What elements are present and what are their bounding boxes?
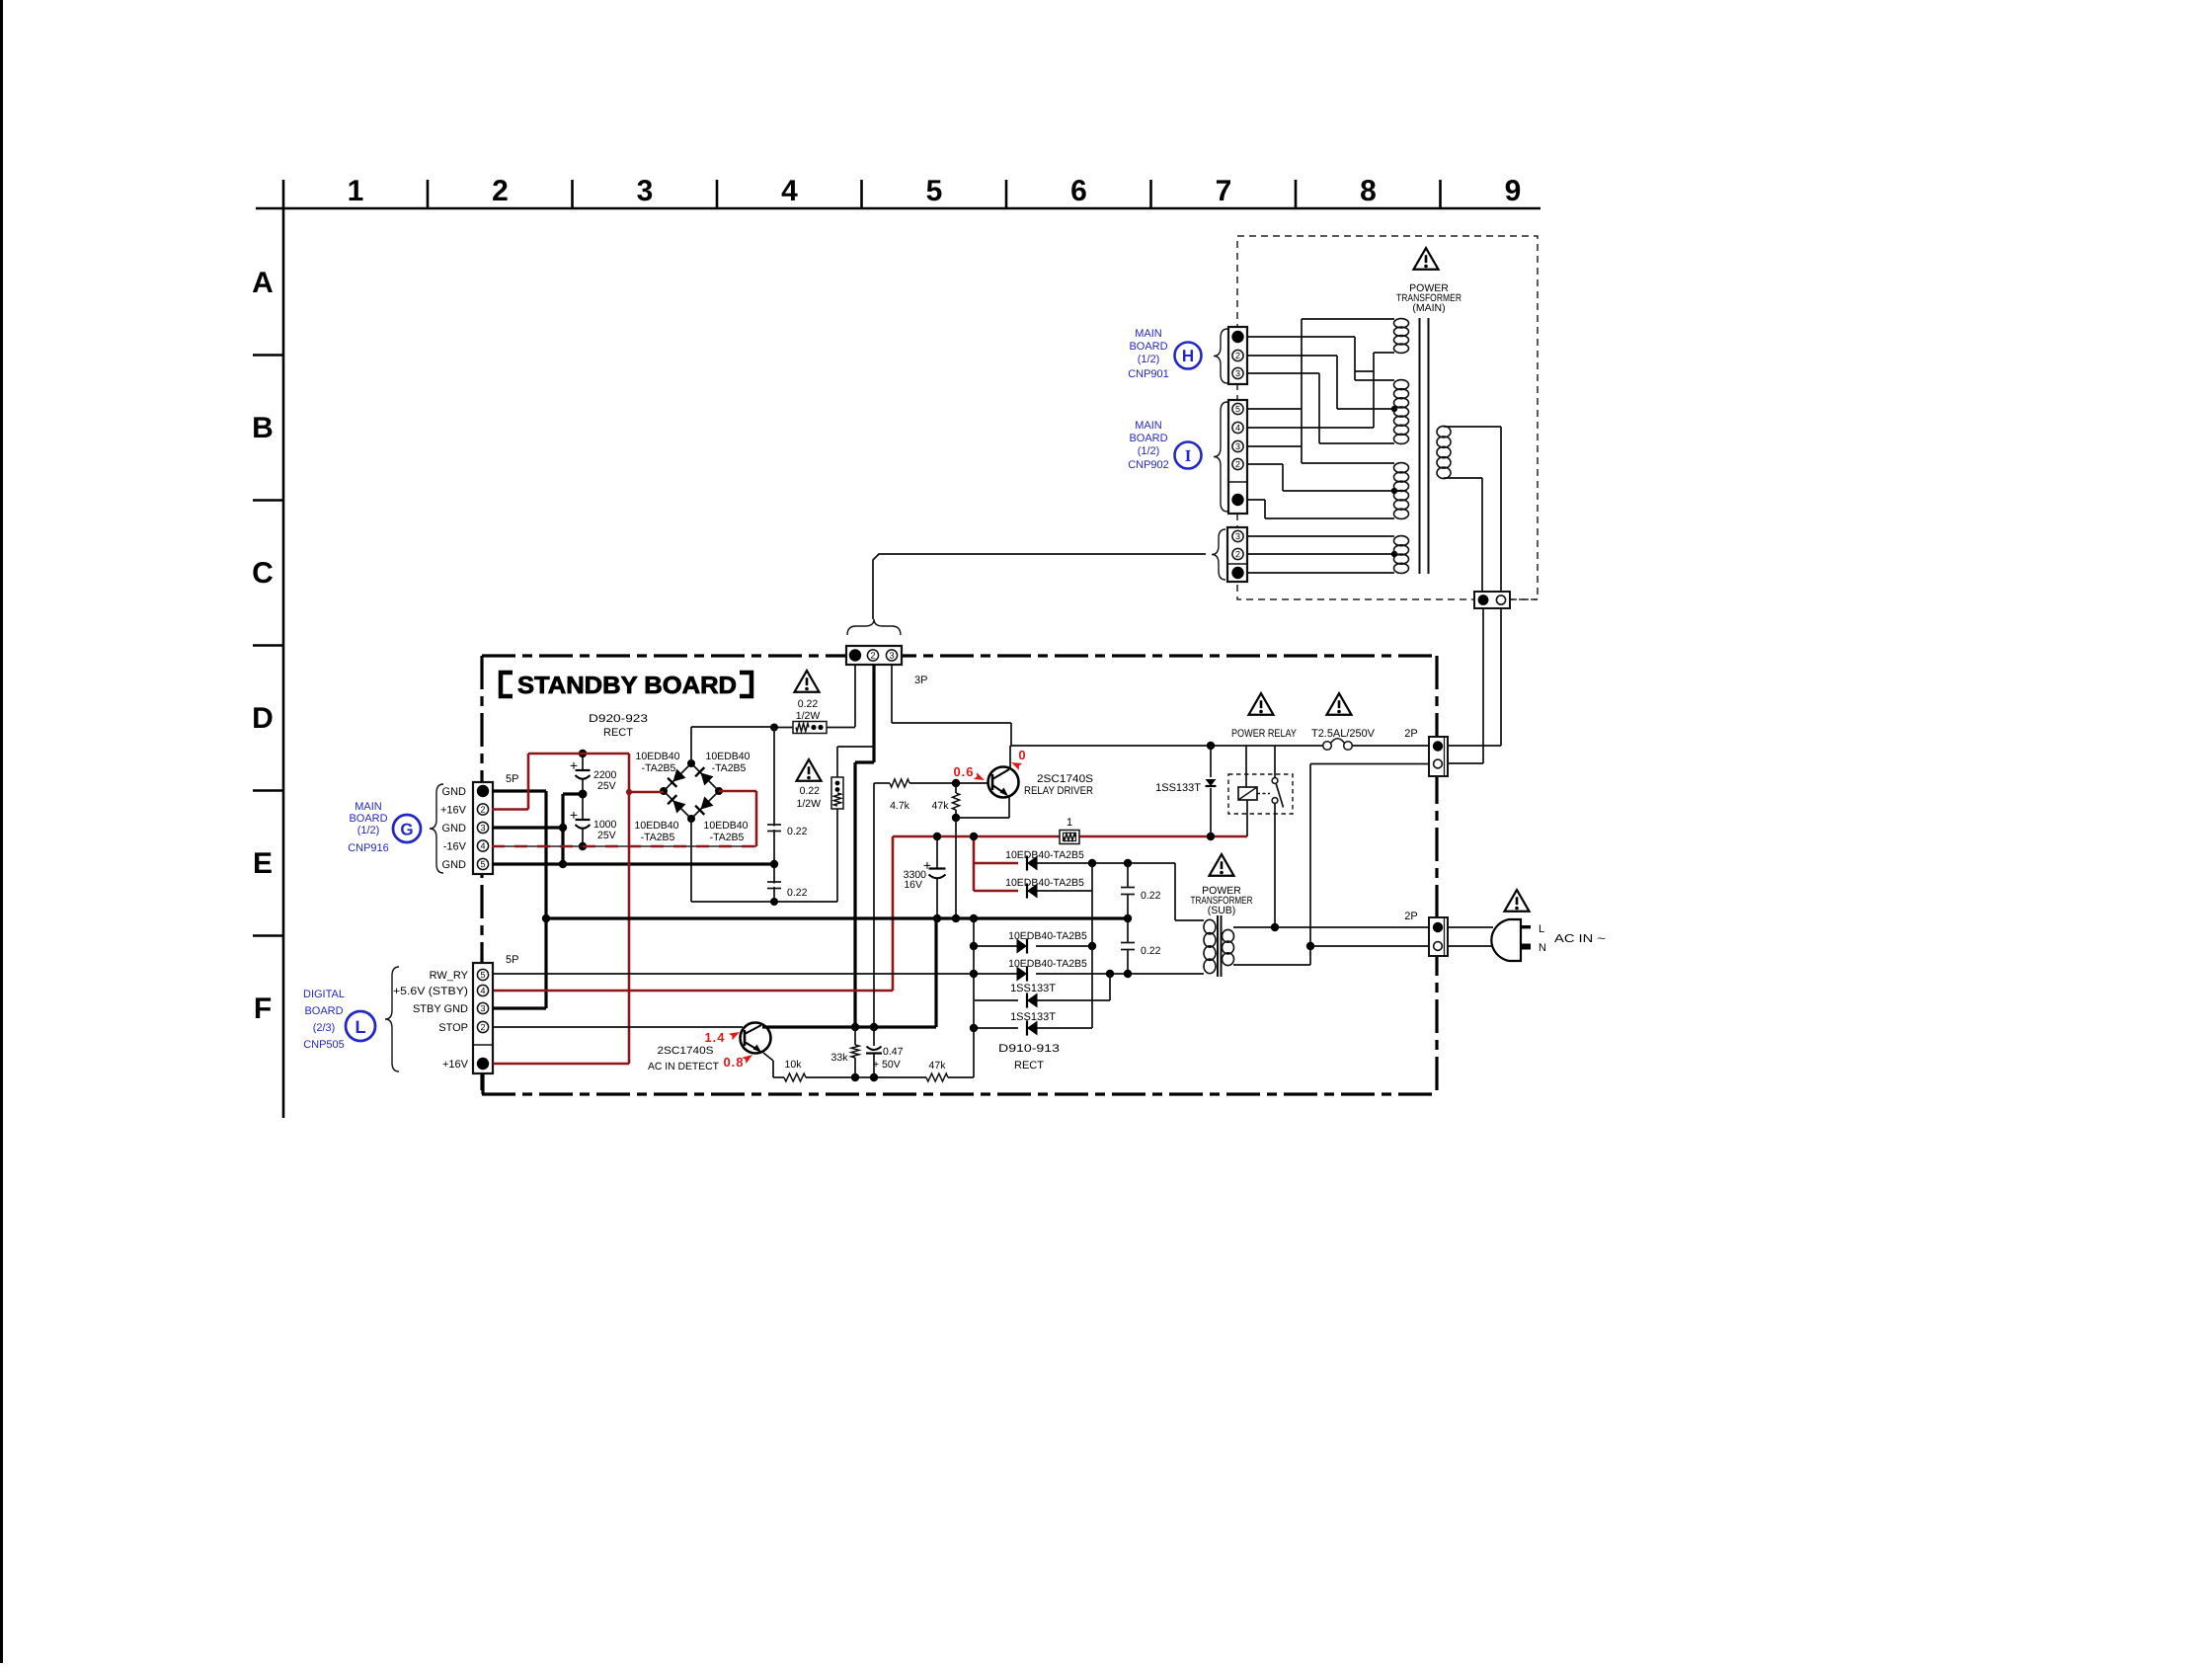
svg-text:T2.5AL/250V: T2.5AL/250V	[1311, 728, 1376, 740]
svg-text:4.7k: 4.7k	[890, 800, 910, 812]
svg-text:10EDB40: 10EDB40	[635, 820, 679, 832]
svg-text:1: 1	[1066, 817, 1072, 829]
svg-text:33k: 33k	[831, 1052, 849, 1064]
svg-text:MAIN: MAIN	[355, 801, 382, 813]
svg-text:E: E	[253, 847, 273, 880]
svg-text:4: 4	[781, 175, 798, 207]
svg-text:3P: 3P	[914, 675, 927, 686]
svg-text:2: 2	[480, 805, 485, 815]
svg-text:6: 6	[1070, 175, 1087, 207]
svg-text:0.8: 0.8	[723, 1055, 744, 1070]
svg-text:5: 5	[480, 970, 485, 980]
svg-text:7: 7	[1216, 175, 1232, 207]
svg-text:1SS133T: 1SS133T	[1155, 782, 1201, 794]
svg-text:10k: 10k	[785, 1059, 803, 1071]
svg-text:(2/3): (2/3)	[313, 1022, 336, 1034]
svg-text:POWER RELAY: POWER RELAY	[1231, 728, 1298, 740]
svg-text:9: 9	[1505, 175, 1522, 207]
svg-text:0.22: 0.22	[787, 887, 808, 899]
svg-text:5: 5	[480, 859, 485, 869]
svg-text:BOARD: BOARD	[1129, 433, 1167, 444]
svg-text:25V: 25V	[597, 830, 616, 841]
svg-text:5P: 5P	[506, 954, 518, 966]
svg-text:D: D	[252, 702, 274, 735]
svg-text:D910-913: D910-913	[998, 1043, 1060, 1055]
svg-text:F: F	[254, 993, 272, 1025]
svg-text:(SUB): (SUB)	[1208, 905, 1236, 916]
svg-text:GND: GND	[442, 823, 467, 834]
svg-text:CNP505: CNP505	[303, 1039, 345, 1051]
svg-text:B: B	[252, 412, 274, 444]
svg-text:3: 3	[480, 823, 485, 833]
svg-text:AC IN DETECT: AC IN DETECT	[648, 1061, 720, 1072]
svg-text:BOARD: BOARD	[304, 1005, 343, 1017]
svg-text:2P: 2P	[1404, 728, 1417, 740]
svg-text:STANDBY BOARD: STANDBY BOARD	[517, 673, 737, 699]
svg-text:1: 1	[348, 175, 364, 207]
svg-text:DIGITAL: DIGITAL	[303, 989, 345, 1000]
svg-text:3: 3	[637, 175, 654, 207]
svg-text:0.22: 0.22	[787, 826, 808, 837]
svg-text:0.47: 0.47	[883, 1046, 904, 1058]
svg-text:0.22: 0.22	[1141, 945, 1161, 957]
svg-text:CNP901: CNP901	[1128, 368, 1169, 380]
svg-text:0: 0	[1018, 748, 1025, 762]
svg-text:10EDB40: 10EDB40	[704, 820, 749, 832]
svg-text:RW_RY: RW_RY	[430, 970, 469, 982]
svg-text:4: 4	[480, 841, 485, 851]
svg-text:8: 8	[1360, 175, 1377, 207]
svg-text:3: 3	[1235, 441, 1240, 451]
svg-text:1SS133T: 1SS133T	[1010, 1011, 1056, 1023]
svg-text:+5.6V (STBY): +5.6V (STBY)	[393, 986, 468, 997]
svg-text:D920-923: D920-923	[589, 713, 648, 725]
svg-text:25V: 25V	[597, 780, 616, 792]
svg-text:L: L	[355, 1017, 365, 1037]
svg-text:10EDB40-TA2B5: 10EDB40-TA2B5	[1008, 930, 1087, 942]
svg-text:1SS133T: 1SS133T	[1010, 983, 1056, 994]
svg-text:A: A	[252, 267, 274, 299]
svg-text:4: 4	[480, 986, 485, 995]
svg-text:2: 2	[1235, 549, 1240, 559]
svg-text:4: 4	[1235, 423, 1240, 433]
svg-text:MAIN: MAIN	[1135, 420, 1162, 432]
svg-text:CNP902: CNP902	[1128, 459, 1169, 471]
svg-text:RECT: RECT	[603, 727, 633, 739]
svg-text:3: 3	[1235, 368, 1240, 378]
svg-text:2SC1740S: 2SC1740S	[1037, 773, 1093, 785]
svg-text:2: 2	[870, 651, 875, 661]
svg-text:1/2W: 1/2W	[796, 710, 821, 722]
svg-text:(1/2): (1/2)	[1138, 354, 1160, 365]
svg-text:GND: GND	[442, 859, 467, 871]
svg-text:MAIN: MAIN	[1135, 328, 1162, 340]
svg-text:+16V: +16V	[442, 1059, 469, 1071]
svg-text:2SC1740S: 2SC1740S	[657, 1045, 713, 1057]
svg-text:16V: 16V	[904, 879, 922, 891]
svg-text:2P: 2P	[1404, 911, 1417, 922]
svg-text:10EDB40-TA2B5: 10EDB40-TA2B5	[1005, 849, 1084, 861]
svg-text:10EDB40: 10EDB40	[636, 751, 680, 762]
svg-text:47k: 47k	[929, 1060, 947, 1072]
svg-text:1.4: 1.4	[704, 1030, 725, 1045]
svg-text:2: 2	[1235, 351, 1240, 360]
svg-text:STOP: STOP	[438, 1022, 468, 1034]
svg-text:CNP916: CNP916	[348, 842, 389, 854]
svg-text:AC IN ~: AC IN ~	[1554, 933, 1606, 945]
svg-text:G: G	[400, 820, 413, 838]
svg-text:2: 2	[480, 1022, 485, 1032]
svg-text:10EDB40: 10EDB40	[706, 751, 750, 762]
svg-text:C: C	[252, 557, 274, 590]
svg-text:-TA2B5: -TA2B5	[710, 832, 745, 843]
svg-text:BOARD: BOARD	[1129, 341, 1167, 353]
svg-text:+: +	[570, 757, 578, 773]
svg-text:STBY GND: STBY GND	[413, 1003, 468, 1015]
svg-text:N: N	[1539, 942, 1546, 954]
svg-text:0.6: 0.6	[953, 764, 974, 779]
svg-text:5: 5	[926, 175, 943, 207]
svg-text:L: L	[1539, 923, 1544, 935]
svg-text:-TA2B5: -TA2B5	[642, 762, 676, 774]
svg-text:1/2W: 1/2W	[796, 798, 821, 810]
svg-text:I: I	[1185, 446, 1192, 465]
svg-text:GND: GND	[442, 786, 467, 798]
svg-text:0.22: 0.22	[800, 785, 821, 797]
svg-text:47k: 47k	[932, 800, 950, 812]
svg-text:+ 50V: + 50V	[873, 1059, 901, 1071]
svg-text:0.22: 0.22	[1141, 890, 1161, 902]
svg-text:-16V: -16V	[443, 840, 467, 852]
svg-text:-TA2B5: -TA2B5	[641, 832, 675, 843]
svg-text:-TA2B5: -TA2B5	[712, 762, 747, 774]
svg-text:3: 3	[480, 1003, 485, 1013]
svg-text:+16V: +16V	[440, 804, 467, 816]
svg-text:3: 3	[889, 651, 894, 661]
svg-text:3: 3	[1235, 531, 1240, 541]
svg-text:2: 2	[492, 175, 509, 207]
svg-text:RELAY DRIVER: RELAY DRIVER	[1024, 785, 1093, 797]
svg-text:(1/2): (1/2)	[357, 825, 380, 836]
svg-text:10EDB40-TA2B5: 10EDB40-TA2B5	[1005, 877, 1084, 889]
svg-text:RECT: RECT	[1014, 1060, 1044, 1072]
svg-text:5: 5	[1235, 404, 1240, 414]
svg-text:5P: 5P	[506, 773, 518, 785]
svg-text:BOARD: BOARD	[349, 813, 387, 825]
svg-text:(1/2): (1/2)	[1138, 445, 1160, 457]
svg-text:2: 2	[1235, 459, 1240, 469]
svg-text:10EDB40-TA2B5: 10EDB40-TA2B5	[1008, 958, 1087, 970]
svg-text:0.22: 0.22	[798, 698, 819, 710]
svg-text:+: +	[570, 807, 578, 823]
svg-text:(MAIN): (MAIN)	[1412, 302, 1445, 314]
svg-text:H: H	[1182, 347, 1194, 365]
